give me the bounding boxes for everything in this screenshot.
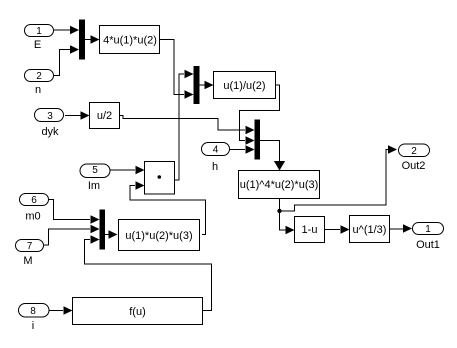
svg-text:f(u): f(u): [129, 306, 146, 318]
svg-text:7: 7: [27, 241, 33, 252]
svg-text:Out2: Out2: [402, 160, 426, 172]
svg-text:E: E: [34, 39, 41, 51]
svg-text:Out1: Out1: [416, 239, 440, 251]
svg-text:i: i: [32, 320, 34, 332]
svg-text:8: 8: [30, 306, 36, 317]
svg-text:2: 2: [36, 71, 42, 82]
svg-text:1: 1: [36, 26, 42, 37]
svg-text:1-u: 1-u: [302, 224, 318, 236]
svg-text:u(1)*u(2)*u(3): u(1)*u(2)*u(3): [125, 230, 192, 242]
svg-text:1: 1: [425, 224, 431, 235]
svg-text:Im: Im: [88, 180, 100, 192]
svg-text:n: n: [35, 84, 41, 96]
svg-text:6: 6: [31, 195, 37, 206]
svg-text:u(1)^4*u(2)*u(3): u(1)^4*u(2)*u(3): [240, 179, 319, 191]
svg-text:5: 5: [92, 165, 98, 176]
svg-text:M: M: [23, 255, 32, 267]
svg-text:u^(1/3): u^(1/3): [353, 224, 387, 236]
svg-text:2: 2: [411, 146, 417, 157]
svg-text:m0: m0: [25, 211, 40, 223]
svg-text:h: h: [212, 161, 218, 173]
svg-text:4*u(1)*u(2): 4*u(1)*u(2): [103, 35, 157, 47]
svg-text:3: 3: [47, 111, 53, 122]
svg-text:u(1)/u(2): u(1)/u(2): [223, 80, 265, 92]
svg-text:dyk: dyk: [41, 126, 59, 138]
svg-text:4: 4: [213, 145, 219, 156]
svg-text:u/2: u/2: [97, 110, 112, 122]
